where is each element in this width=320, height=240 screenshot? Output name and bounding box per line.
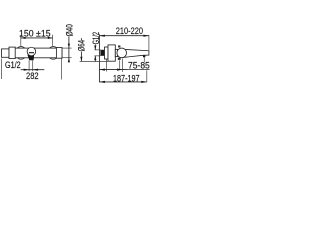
dim G1/2 side line bottom [94, 56, 96, 62]
dim 210-220 arrow right [143, 35, 149, 37]
handle nub top [118, 45, 120, 47]
dim 150±15 line [21, 37, 53, 39]
dim 210-220 arrow left [99, 35, 105, 37]
svg-text:75-85: 75-85 [128, 61, 150, 71]
dim G1/2 side arrow up [94, 56, 96, 60]
dim 187-197 ext lower [146, 70, 148, 82]
dim G1/2 side ext top [94, 49, 100, 51]
svg-text:150 ±15: 150 ±15 [19, 28, 51, 38]
left escutcheon dome [15, 47, 26, 60]
escutcheon side [105, 47, 109, 59]
spout [123, 49, 149, 57]
dim Ø40 line [68, 37, 70, 63]
nipple [100, 50, 104, 56]
svg-text:210-220: 210-220 [116, 26, 143, 36]
svg-text:G1/2: G1/2 [91, 32, 101, 44]
dim G1/2 side ext bottom [94, 55, 100, 57]
body side Ø64 [108, 45, 115, 61]
dim 282 ext right [61, 59, 63, 80]
svg-text:187-197: 187-197 [113, 73, 140, 83]
text G1/2 vertical [91, 32, 101, 44]
svg-text:282: 282 [26, 71, 39, 81]
dim 75-85 arrow left [99, 69, 105, 71]
dim 75-85 ext [122, 59, 124, 72]
dim G1/2 arrow right-pointing [24, 69, 29, 71]
dim G1/2 stub tick right [32, 60, 34, 71]
dim 187-197 arrow left [99, 81, 105, 83]
dim Ø40 ext top [63, 47, 72, 49]
svg-text:G1/2: G1/2 [5, 60, 21, 70]
dim 75-85 arrow right [117, 69, 123, 71]
dim Ø64 arrow bottom [80, 57, 82, 62]
dim Ø64 line [80, 38, 82, 61]
dim 150±15 arrow right [48, 37, 53, 39]
dim Ø40 arrow bottom [68, 58, 70, 63]
neck [115, 49, 117, 56]
text Ø40 vertical [64, 24, 74, 36]
handle circle side [117, 48, 127, 58]
left handle collar [9, 47, 15, 59]
handle nub bottom [118, 58, 121, 60]
dim 282 ext left [0, 59, 2, 80]
dim 150±15 ext line right [52, 35, 54, 46]
aerator [143, 55, 145, 57]
dim G1/2 leader line [21, 69, 45, 71]
dim G1/2 arrow left-pointing [33, 69, 38, 71]
control button circle [27, 47, 36, 56]
svg-text:Ø40: Ø40 [64, 24, 74, 36]
right escutcheon dome [48, 47, 59, 60]
dim G1/2 side arrow down [94, 46, 96, 50]
dim 187-197 ext upper [143, 58, 145, 62]
right handle cap [56, 48, 62, 59]
dim G1/2 stub tick left [28, 60, 30, 71]
text Ø64 vertical [76, 40, 86, 51]
text Ø64 bg [78, 40, 85, 51]
dim 150±15 ext line left [20, 35, 22, 46]
dim 75-85 line [99, 69, 149, 71]
body bar [9, 48, 62, 58]
dim G1/2 side line top [94, 45, 96, 50]
dim Ø64 ext bottom [80, 60, 108, 62]
text 75-85 bg [127, 62, 150, 70]
outlet stub dark [27, 55, 34, 61]
dim Ø40 arrow top [68, 44, 70, 49]
outlet leader below escutcheon [105, 59, 107, 71]
svg-text:Ø64: Ø64 [76, 40, 86, 51]
wall line [98, 34, 100, 82]
dim 150±15 arrow left [21, 37, 26, 39]
dim 210-220 ext right [148, 35, 150, 50]
dim 187-197 arrow right [141, 81, 147, 83]
left handle cap [2, 49, 10, 57]
dim 210-220 line [99, 35, 148, 37]
dim 187-197 line [99, 81, 146, 83]
outlet leader below nub [119, 60, 121, 70]
background [0, 0, 154, 113]
dim Ø40 ext bottom [63, 57, 72, 59]
button slot [29, 52, 34, 54]
